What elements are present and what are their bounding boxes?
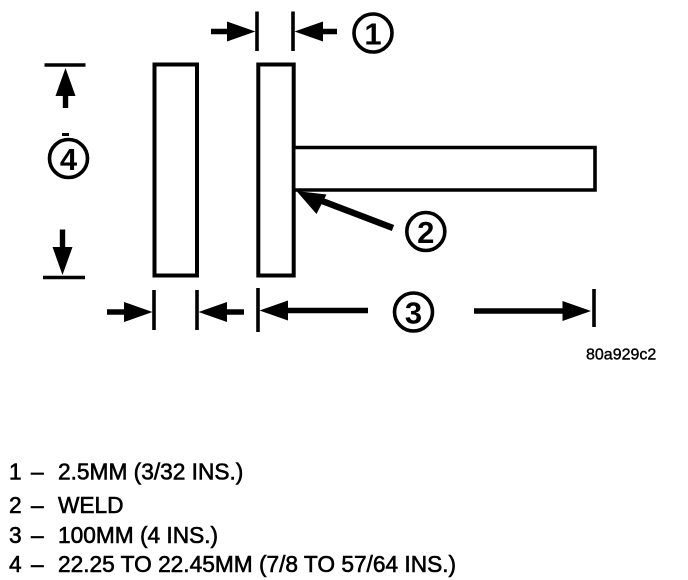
callout circle 3 xyxy=(395,293,433,331)
svg-text:22.25 TO 22.45MM (7/8 TO 57/64: 22.25 TO 22.45MM (7/8 TO 57/64 INS.) xyxy=(58,551,456,577)
svg-text:2: 2 xyxy=(417,215,434,250)
svg-text:100MM (4 INS.): 100MM (4 INS.) xyxy=(58,522,218,548)
svg-text:1: 1 xyxy=(9,459,22,485)
horizontal bar (welded plate) xyxy=(296,148,596,191)
svg-text:2.5MM (3/32 INS.): 2.5MM (3/32 INS.) xyxy=(58,459,243,485)
legend line 3 xyxy=(9,522,218,548)
plate A (left vertical bar) xyxy=(155,65,198,276)
svg-text:2: 2 xyxy=(9,492,22,518)
dim4 top tick xyxy=(45,63,86,66)
dim1 arrow pointing left xyxy=(295,22,338,42)
legend line 1 xyxy=(9,459,243,485)
dim4 down arrow xyxy=(53,230,73,276)
svg-text:–: – xyxy=(31,522,44,548)
bottom tick at right end of horizontal bar xyxy=(592,289,596,327)
svg-text:–: – xyxy=(31,459,44,485)
callout circle 4 xyxy=(50,140,88,178)
svg-text:80a929c2: 80a929c2 xyxy=(586,347,656,364)
weld leader arrow 2 xyxy=(297,191,394,228)
svg-text:4: 4 xyxy=(9,551,22,577)
callout circle 2 xyxy=(407,213,445,251)
callout circle 1 xyxy=(354,14,392,52)
bottom tick at plate A left edge xyxy=(152,290,156,330)
svg-text:–: – xyxy=(31,551,44,577)
bottom tick at plate A right edge xyxy=(195,290,199,330)
svg-text:1: 1 xyxy=(364,16,381,51)
svg-text:3: 3 xyxy=(405,295,422,330)
svg-text:4: 4 xyxy=(60,142,78,177)
dim4 up arrow xyxy=(56,68,76,108)
dim1 tick right xyxy=(291,12,295,52)
svg-text:3: 3 xyxy=(9,522,22,548)
legend line 4 xyxy=(9,551,456,577)
bottom arrow pointing left at plate A right edge xyxy=(199,302,245,322)
dim4 bottom tick xyxy=(43,276,85,279)
legend line 2 xyxy=(9,492,124,518)
plate B (right vertical bar) xyxy=(258,65,293,276)
dim1 tick left xyxy=(255,12,259,52)
bottom arrow pointing right at plate A left edge xyxy=(107,302,153,322)
dim1 arrow pointing right xyxy=(211,22,256,42)
bottom tick at plate B left edge xyxy=(256,288,260,332)
dim3 arrow pointing left at plate B left edge xyxy=(260,301,369,321)
dim4 centre dash xyxy=(62,133,69,136)
svg-text:WELD: WELD xyxy=(58,492,124,518)
svg-text:–: – xyxy=(31,492,44,518)
dim3 arrow pointing right at bar end xyxy=(474,301,591,321)
